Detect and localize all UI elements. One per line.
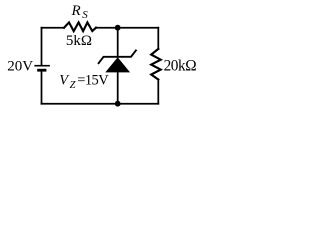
svg-text:20kΩ: 20kΩ <box>164 57 197 74</box>
svg-text:Z: Z <box>70 80 76 91</box>
svg-text:5kΩ: 5kΩ <box>66 33 92 49</box>
svg-text:S: S <box>82 9 88 21</box>
svg-text:=15V: =15V <box>77 72 109 88</box>
svg-text:R: R <box>71 3 81 19</box>
svg-text:20V: 20V <box>7 58 33 74</box>
